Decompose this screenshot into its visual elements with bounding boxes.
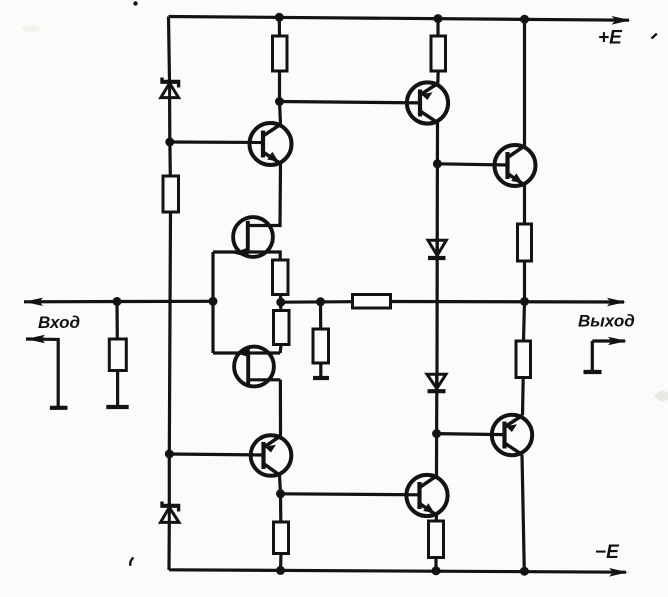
wire VT5 base lead	[281, 494, 420, 495]
resistor R6	[274, 311, 290, 345]
faint scan smudge top-left	[22, 25, 40, 32]
node junction dot R2 at +E rail	[434, 14, 443, 23]
node junction dot VT7 collector at rail	[520, 567, 529, 576]
svg-text:−E: −E	[595, 542, 620, 563]
wire VT1 base lead	[170, 140, 263, 144]
resistor R8 (horizontal)	[353, 295, 391, 309]
resistor R7	[313, 329, 329, 363]
resistor R4	[109, 339, 126, 371]
wire input line	[24, 300, 213, 304]
svg-text:+E: +E	[598, 28, 623, 49]
wire VT3 emitter line through to R5	[213, 252, 280, 260]
wire VT1 collector to node	[280, 102, 281, 125]
node junction dot VT2 collector / VT6 base	[433, 159, 442, 168]
transistor VT8 (PNP lower driver left)	[251, 435, 292, 476]
node junction dot input to middle stage	[209, 297, 218, 306]
wire R7 lower lead	[319, 363, 322, 377]
wire R5 to mid node	[279, 295, 282, 311]
wire left bus: tap to zener VD2	[168, 454, 171, 506]
wire VT8 collector down to node	[280, 475, 281, 494]
wire VT2 collector down to diode node	[436, 123, 439, 164]
wire R10 to VT7 emitter	[521, 378, 525, 416]
node output arrowhead	[607, 298, 626, 306]
svg-text:Вход: Вход	[38, 313, 80, 332]
transistor VT2 (PNP second stage)	[407, 82, 448, 123]
stray apostrophe bottom left	[130, 558, 133, 566]
stray tick near +E	[652, 34, 657, 39]
wire VD3 to VD4 crossing output line	[435, 258, 438, 374]
node junction dot R12 at rail	[276, 566, 285, 575]
wire VT6 emitter to R9	[523, 185, 526, 224]
wire VT7 base lead	[437, 434, 505, 435]
input lower terminal arrow and lead	[26, 335, 68, 408]
node junction dot output at R9/R10	[520, 297, 529, 306]
resistor R3	[163, 176, 179, 212]
node junction dot VT8 collector / R12	[276, 489, 285, 498]
resistor R1	[273, 36, 288, 71]
wire top supply rail	[169, 17, 630, 21]
node junction dot mid divider	[276, 298, 285, 307]
wire bottom supply rail	[169, 570, 626, 572]
wire output line	[281, 300, 353, 304]
node junction dot at Q1 base tap	[165, 138, 174, 147]
node +E rail arrowhead	[612, 16, 631, 25]
resistor R9	[518, 224, 532, 261]
node junction dot VT6 collector at rail	[520, 15, 529, 24]
zener diode VD2	[161, 502, 181, 523]
wire node to R12	[279, 494, 282, 522]
wire left bus: zener to Q1 base tap	[168, 98, 171, 142]
faint scan smudge bottom-right	[655, 391, 668, 401]
wire R6 to VT4 line	[279, 345, 283, 354]
wire VT8 base lead	[169, 454, 263, 455]
wire left bus: R3 down across input line to lower tap	[169, 212, 170, 454]
wire R11 to -E rail	[434, 558, 437, 571]
resistor R5	[273, 260, 289, 295]
wire VT4 collector down to VT5	[279, 380, 282, 436]
node junction dot at Q4 base tap	[165, 450, 174, 459]
diode VD3	[428, 240, 446, 258]
transistor VT6 (NPN output top)	[495, 145, 536, 186]
ground terminal bar under R7	[313, 376, 329, 380]
wire R2 top lead	[436, 19, 439, 36]
wire VT7 collector to -E rail	[522, 455, 524, 572]
resistor R10	[516, 341, 531, 378]
node junction dot R11 at rail	[432, 566, 441, 575]
wire node down to VT5 collector	[435, 434, 438, 476]
wire R10 top lead	[524, 301, 525, 341]
node junction dot VT7 base / VT5 collector	[432, 429, 441, 438]
wire VT6 base lead	[437, 164, 507, 165]
node junction dot R7 tap	[316, 297, 325, 306]
wire node to diode VD3	[436, 164, 439, 240]
diode VD4	[427, 374, 446, 391]
wire R7 upper lead	[319, 302, 322, 329]
transistor VT5 (NPN lower driver)	[406, 475, 447, 516]
wire VT4 top line through to R6	[213, 351, 280, 354]
wire R4 lower lead	[116, 371, 119, 407]
wire R12 to -E rail	[279, 554, 283, 571]
transistor VT1 (input NPN)	[250, 123, 292, 165]
wire R4 upper lead	[115, 302, 119, 340]
node input arrowhead	[24, 298, 43, 306]
transistor VT7 (PNP output bottom)	[492, 415, 532, 455]
transistor VT3 (upper diode-connected, sideways)	[233, 217, 280, 257]
wire output line right of R8	[391, 300, 625, 304]
resistor R12	[274, 522, 289, 554]
wire VT6 collector to +E rail	[523, 19, 526, 146]
wire interstage line to VT2 base	[280, 102, 421, 103]
wire left vertical bus upper segment	[169, 17, 170, 82]
node junction dot input shunt resistor	[113, 297, 122, 306]
wire R9 to output node	[523, 261, 526, 301]
resistor R2	[431, 36, 446, 71]
wire middle-left vertical bus x=213	[211, 252, 214, 353]
stray ink speck top	[133, 1, 137, 5]
wire VD4 to lower node	[435, 391, 438, 433]
wire VT5 emitter to R11	[435, 515, 438, 521]
wire left bus: tap to resistor R3	[168, 142, 172, 176]
zener diode VD1	[161, 78, 181, 98]
svg-text:Выход: Выход	[578, 312, 635, 331]
resistor R11	[429, 521, 444, 558]
wire R1 bottom lead	[278, 71, 281, 102]
wire VT3 collector up to VT1 emitter	[280, 164, 281, 226]
wire left bus: zener VD2 to bottom rail	[167, 522, 171, 570]
wire R1 top lead	[278, 17, 281, 36]
ground terminal bar under R4	[106, 405, 128, 409]
node -E rail arrowhead	[609, 568, 628, 577]
node junction dot VT1 collector	[275, 97, 284, 106]
transistor VT4 (lower diode-connected, sideways)	[234, 347, 280, 387]
node junction dot R1 at +E rail	[275, 13, 284, 22]
wire R2 bottom to VT2 emitter	[436, 71, 440, 83]
output terminal arrow and lead	[584, 337, 628, 372]
